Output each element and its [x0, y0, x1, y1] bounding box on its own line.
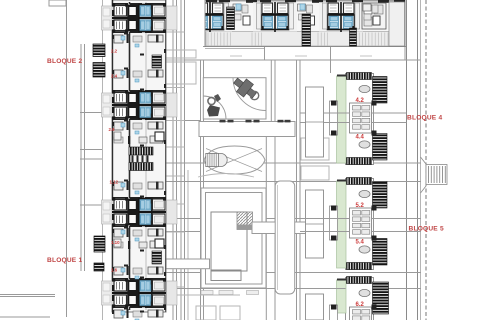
stair blocks west of building: [93, 44, 105, 57]
playground seesaw glyph: [231, 74, 260, 101]
building spine wall: [129, 2, 131, 310]
road: horizontal y120.5 west of plaza: [166, 120, 200, 122]
svg-text:BLOQUE 4: BLOQUE 4: [407, 114, 442, 121]
living area @y180-197: [112, 180, 166, 198]
bloque 5 east comb lower: [373, 239, 388, 266]
bloque 6 central stair core: [350, 307, 372, 320]
bedroom cluster pair @y105: [102, 90, 178, 120]
svg-text:1.10: 1.10: [111, 240, 120, 245]
bloque 5 pool west: [306, 190, 324, 258]
top building stair comb C: [350, 28, 357, 46]
arc under lens: [198, 174, 254, 178]
bloque 6 north stair comb: [347, 277, 372, 284]
svg-text:4.4: 4.4: [356, 135, 365, 141]
cyan bath top building: [236, 4, 241, 10]
plot rects x300 column: [301, 138, 329, 160]
top building stair comb B: [302, 14, 311, 46]
road: west boundary vertical line x66: [66, 0, 68, 317]
svg-text:5.4: 5.4: [356, 240, 365, 246]
playground swing glyph: [208, 97, 215, 104]
pool basin: [211, 212, 247, 271]
living area @y227-251: [112, 227, 166, 252]
bloque 4 east comb lower: [373, 134, 388, 161]
bloque 5 spa oval lower: [359, 246, 370, 253]
stair comb right (bloque 2): [152, 55, 162, 68]
bloque 5 north stair comb: [347, 178, 372, 185]
bloque 2+1 building base: [112, 0, 166, 312]
bloque 4 spa oval lower: [359, 141, 370, 148]
living area @y68-90: [112, 68, 166, 91]
bloque 6 spa oval upper: [359, 289, 370, 296]
svg-text:4.2: 4.2: [356, 98, 365, 104]
road: horizontal below top building y46.5: [203, 46, 406, 48]
top building roof edge: [205, 0, 405, 2]
boundary: dashed property line east: [425, 0, 427, 320]
bloque 6 pool west: [306, 294, 324, 320]
petanque lens court: [204, 146, 265, 174]
corridor line over bloque 6: [300, 288, 346, 290]
road: horizontal between bloque4/5 y163 / y181.5: [166, 162, 421, 164]
road: east boundary verticals: [406, 0, 408, 320]
bloque 5 unit body: [330, 178, 388, 270]
svg-text:BLOQUE 5: BLOQUE 5: [409, 226, 444, 233]
road: vertical pair x200/x203: [200, 60, 202, 320]
road: horizontal y60: [166, 59, 421, 61]
road: central vertical band x266-275: [270, 60, 272, 122]
playground arc small (SW corner): [203, 96, 226, 119]
road: vertical pair x181/x184: [180, 0, 182, 320]
inter-bloque gap combs: [129, 147, 153, 155]
svg-text:2.6: 2.6: [109, 127, 116, 132]
svg-text:1.12: 1.12: [110, 180, 119, 185]
bloque 4 garden strip: [337, 76, 347, 163]
plot rects northwest of plaza: [166, 50, 196, 58]
living area @y120-146: [112, 120, 166, 147]
plot dashes below top building: [230, 55, 242, 57]
corridor lines over bloque 4: [324, 112, 350, 114]
top building gap furniture: [233, 4, 241, 11]
svg-text:5.2: 5.2: [356, 203, 365, 209]
svg-text:2.4: 2.4: [111, 74, 118, 79]
road band crossing pool east y222-233: [252, 222, 310, 234]
pool terrace ticks: [201, 291, 213, 295]
road: vertical pair x296/x300: [296, 60, 298, 320]
bloque 5 spa oval upper: [359, 190, 370, 197]
corridor lines over bloque 5: [300, 218, 350, 220]
svg-text:6.2: 6.2: [356, 302, 365, 308]
top building unit pair @x210: [188, 2, 232, 32]
living area @y308-312: [112, 306, 166, 320]
pool enclosure outer rect: [201, 188, 266, 288]
top building end unit east: [362, 3, 386, 29]
playground square: [203, 78, 266, 119]
bloque 4 unit body: [330, 73, 388, 165]
svg-text:BLOQUE 2: BLOQUE 2: [47, 58, 82, 65]
bedroom cluster pair @y293: [102, 278, 178, 308]
road: horizontal between bloque5/6 y272.5 / y288.5: [166, 272, 421, 274]
bloque 4 spa oval upper: [359, 85, 370, 92]
bloque 6 garden strip: [337, 280, 347, 313]
road: horizontal bottom-left y295/y317: [0, 294, 55, 296]
living area @y33-55: [112, 33, 166, 56]
tall rounded plot east of pool: [275, 181, 295, 294]
road: verticals beside left building: [80, 44, 82, 271]
road: horizontal corridor through bloque 5 y218.5/y231.5: [166, 218, 421, 220]
svg-text:BLOQUE 1: BLOQUE 1: [47, 257, 82, 264]
road: horizontal corridor through bloque 4 y113/y122.5: [300, 112, 407, 114]
stair comb right (bloque 1): [152, 251, 162, 264]
road: vertical x188 lower half: [187, 170, 189, 320]
top building unit pair @x275: [253, 2, 297, 32]
bloque 4 west porch: [330, 101, 338, 135]
road: vertical x330 stub below top building: [330, 47, 332, 74]
svg-text:2.2: 2.2: [111, 49, 118, 54]
bloque 4 east comb upper: [373, 77, 388, 104]
bloque 6 east comb upper: [373, 282, 389, 314]
top-left boundary rect: [49, 0, 66, 6]
bloque 5 central stair core: [350, 208, 372, 238]
parking bay east boundary: [421, 157, 427, 193]
pool bottom step rect: [211, 270, 241, 281]
plot divider lines east of left building: [166, 31, 185, 33]
bloque 5 west porch: [330, 206, 338, 240]
svg-text:1.6: 1.6: [111, 268, 118, 273]
bloque 6 unit body: [330, 277, 389, 320]
pergola bar: [199, 122, 295, 137]
living area @y265-278: [112, 265, 166, 280]
bloque 4 south stair comb: [347, 158, 372, 165]
bottom plot rects center: [196, 306, 216, 320]
bedroom cluster pair @y18: [102, 3, 178, 33]
playground arc large (NE corner): [233, 78, 266, 111]
road: vertical pair x173/x176 east of left building: [172, 0, 174, 320]
bloque 5 garden strip: [337, 181, 347, 268]
petanque steps: [206, 153, 219, 166]
bedroom cluster pair @y212: [102, 197, 178, 227]
bloque 4 pool west: [306, 87, 324, 157]
bloque 4 central stair core: [350, 103, 372, 133]
road band crossing west y259-269: [166, 259, 210, 269]
bloque 4 north stair comb: [347, 73, 372, 80]
bloque 5 east comb upper: [373, 182, 388, 209]
bloque 6 west porch: [330, 305, 338, 320]
top building patio east end: [389, 2, 405, 46]
bloque 5 south stair comb: [347, 263, 372, 270]
top building stair comb A: [227, 7, 235, 30]
top row building base: [205, 0, 405, 47]
top building terrace band: [206, 32, 389, 47]
top building unit pair @x341: [319, 2, 363, 32]
